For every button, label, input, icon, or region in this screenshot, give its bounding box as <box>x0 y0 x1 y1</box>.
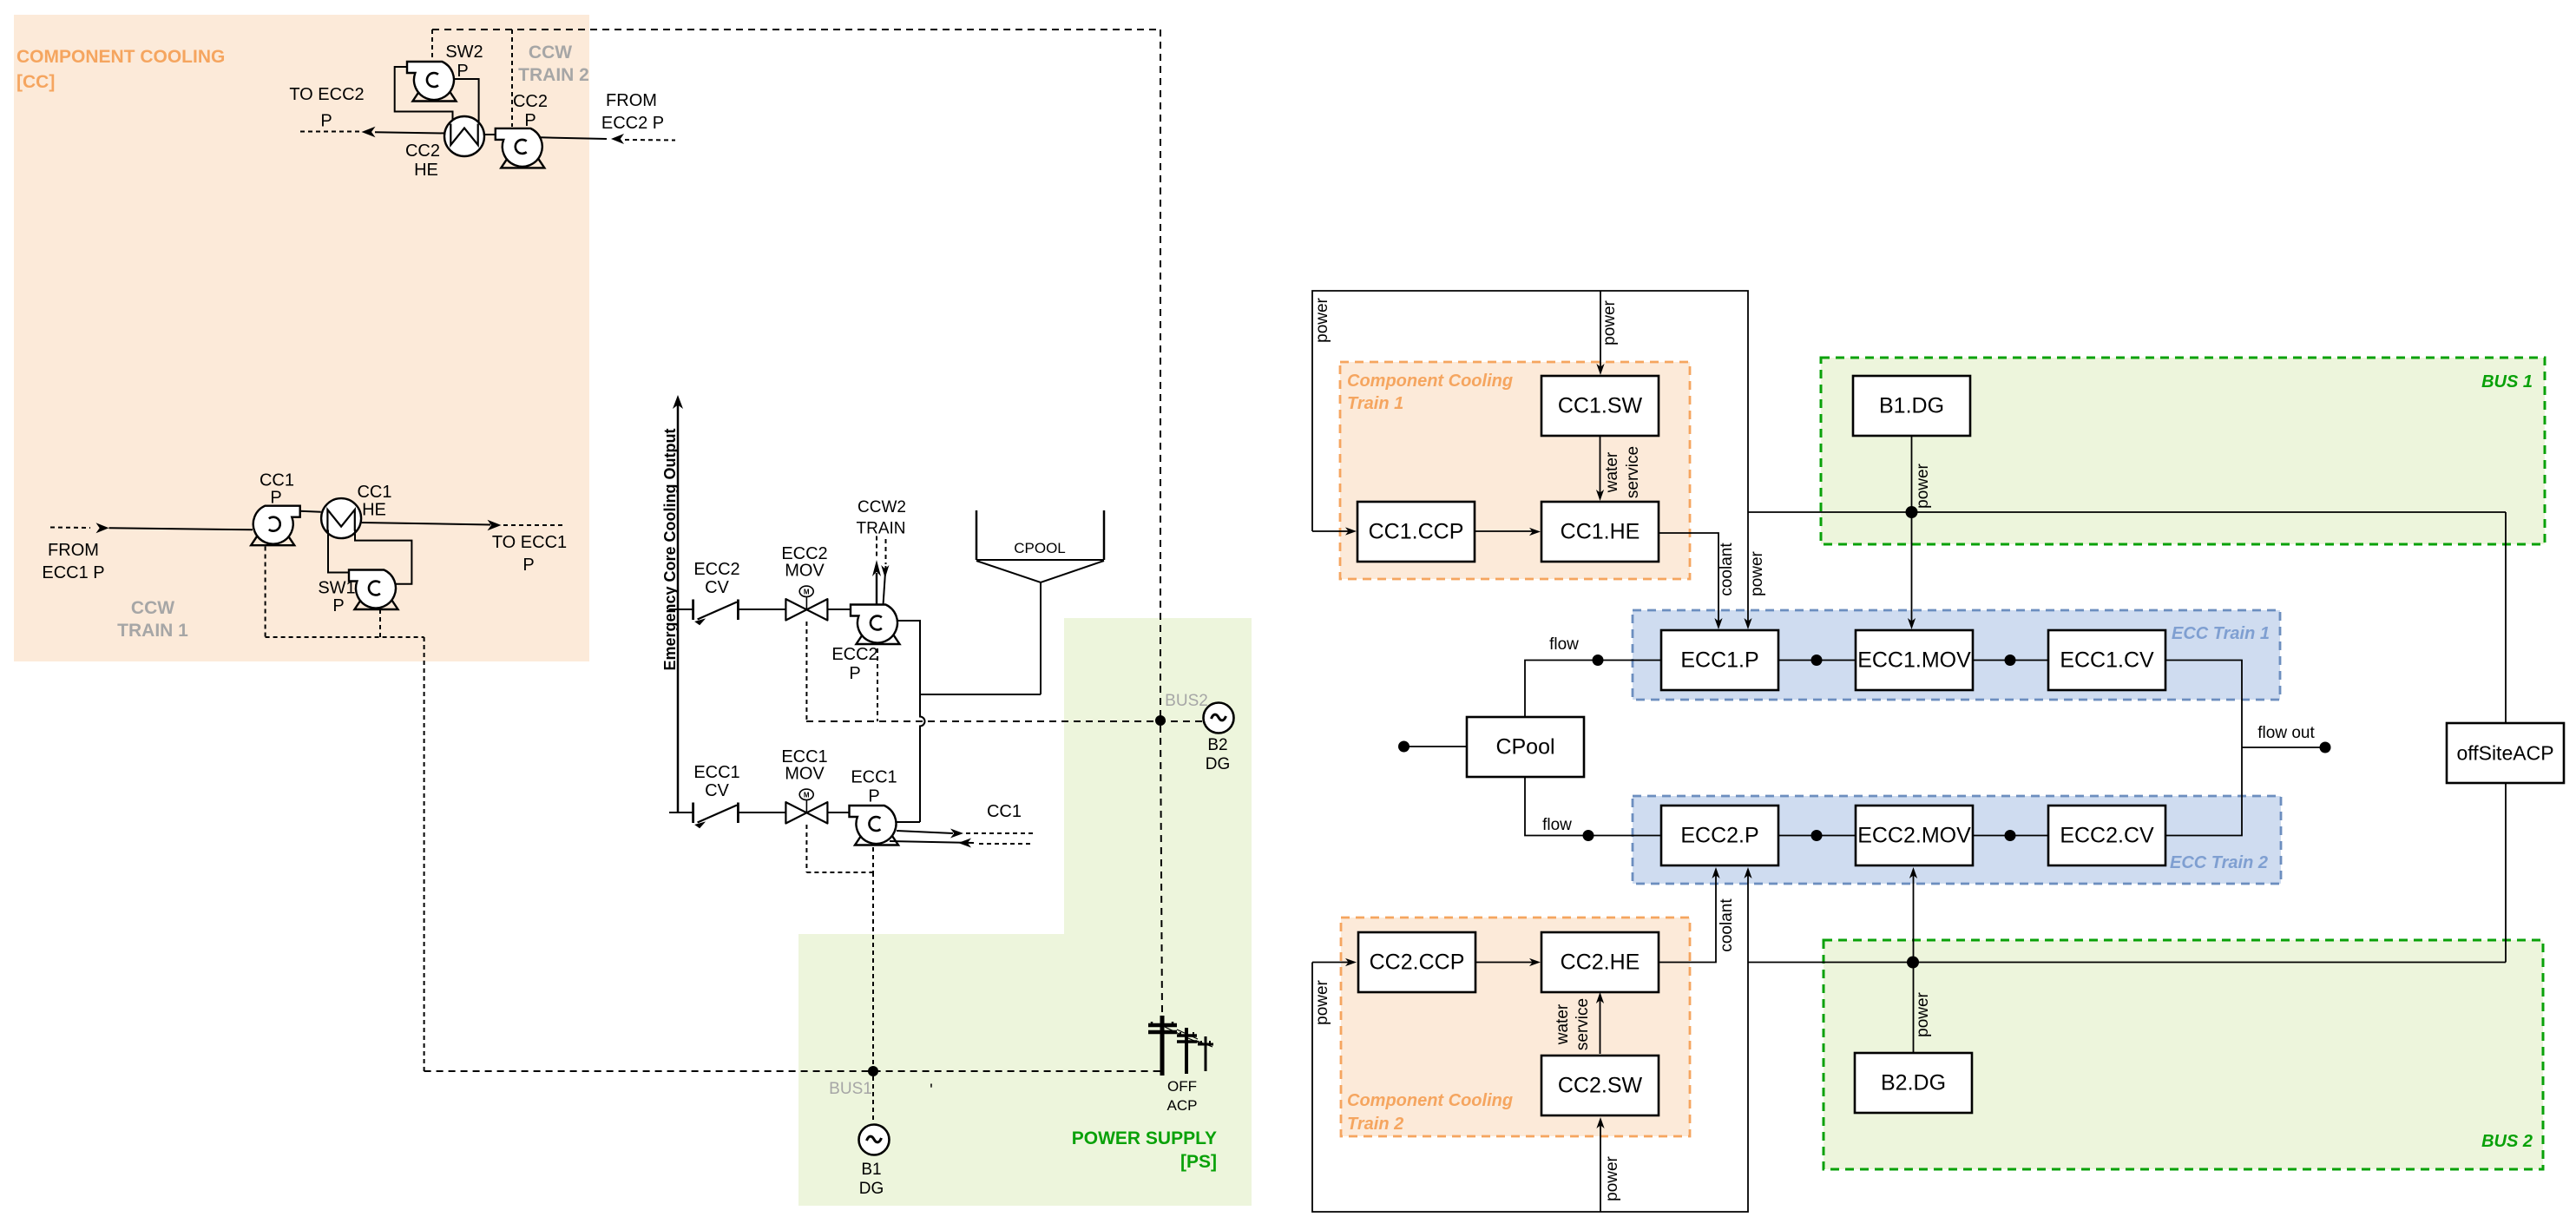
svg-text:MOV: MOV <box>785 765 825 784</box>
svg-text:Train 1: Train 1 <box>1347 394 1403 413</box>
svg-text:CPOOL: CPOOL <box>1014 540 1066 556</box>
svg-text:CC2: CC2 <box>513 92 548 111</box>
svg-text:FROM: FROM <box>606 91 657 110</box>
svg-text:TO ECC2: TO ECC2 <box>289 85 364 104</box>
svg-text:ECC Train 2: ECC Train 2 <box>2170 853 2268 872</box>
svg-text:ECC2.CV: ECC2.CV <box>2060 824 2154 848</box>
svg-text:OFF: OFF <box>1167 1078 1197 1095</box>
svg-text:CV: CV <box>705 578 729 597</box>
svg-text:flow: flow <box>1549 635 1579 654</box>
svg-text:MOV: MOV <box>785 562 825 581</box>
svg-text:CC2.CCP: CC2.CCP <box>1370 951 1465 975</box>
svg-text:CV: CV <box>705 781 729 800</box>
svg-text:power: power <box>1914 991 1932 1036</box>
svg-text:[CC]: [CC] <box>16 72 55 92</box>
svg-text:B1: B1 <box>861 1161 881 1179</box>
svg-text:power: power <box>1748 550 1766 595</box>
svg-text:CC1: CC1 <box>987 802 1022 821</box>
svg-text:ECC2.P: ECC2.P <box>1680 824 1758 848</box>
svg-text:flow out: flow out <box>2257 724 2315 742</box>
svg-text:': ' <box>930 1082 933 1100</box>
svg-text:power: power <box>1914 463 1932 508</box>
svg-text:BUS 1: BUS 1 <box>2481 372 2533 391</box>
svg-text:BUS 2: BUS 2 <box>2481 1132 2533 1151</box>
svg-text:[PS]: [PS] <box>1180 1152 1217 1172</box>
svg-text:water: water <box>1554 1003 1572 1045</box>
svg-text:CC2.HE: CC2.HE <box>1561 951 1640 975</box>
svg-text:COMPONENT COOLING: COMPONENT COOLING <box>16 47 225 67</box>
svg-text:ECC2: ECC2 <box>831 645 877 664</box>
svg-text:HE: HE <box>362 501 386 520</box>
svg-text:ECC1.MOV: ECC1.MOV <box>1857 648 1971 673</box>
svg-text:ECC1.P: ECC1.P <box>1680 648 1758 673</box>
svg-text:ECC1.CV: ECC1.CV <box>2060 648 2154 673</box>
svg-text:power: power <box>1313 297 1331 342</box>
svg-text:Component Cooling: Component Cooling <box>1347 372 1513 391</box>
svg-text:ECC1 P: ECC1 P <box>42 563 104 582</box>
svg-text:SW1: SW1 <box>318 579 355 598</box>
svg-text:ECC1: ECC1 <box>693 763 739 782</box>
svg-text:TRAIN 1: TRAIN 1 <box>117 621 188 641</box>
svg-text:water: water <box>1603 451 1621 493</box>
svg-text:B2.DG: B2.DG <box>1881 1071 1946 1095</box>
svg-text:CC1.CCP: CC1.CCP <box>1369 520 1464 544</box>
svg-text:ECC2.MOV: ECC2.MOV <box>1857 824 1971 848</box>
svg-text:BUS2: BUS2 <box>1165 692 1208 710</box>
svg-text:CC1.SW: CC1.SW <box>1558 394 1643 418</box>
svg-text:flow: flow <box>1542 816 1572 834</box>
svg-text:CC1: CC1 <box>357 483 391 502</box>
svg-text:ACP: ACP <box>1167 1097 1198 1114</box>
svg-text:B2: B2 <box>1207 736 1227 754</box>
svg-text:DG: DG <box>859 1180 884 1198</box>
svg-text:TRAIN 2: TRAIN 2 <box>518 65 589 85</box>
svg-text:CPool: CPool <box>1495 735 1554 760</box>
svg-text:Emergency Core Cooling Output: Emergency Core Cooling Output <box>661 428 679 670</box>
svg-text:Component Cooling: Component Cooling <box>1347 1091 1513 1110</box>
svg-text:P: P <box>457 62 468 81</box>
svg-text:FROM: FROM <box>48 541 99 560</box>
svg-text:offSiteACP: offSiteACP <box>2456 742 2553 765</box>
svg-text:coolant: coolant <box>1718 543 1736 596</box>
svg-text:P: P <box>849 664 860 683</box>
svg-text:TRAIN: TRAIN <box>857 520 906 538</box>
svg-text:power: power <box>1603 1155 1621 1201</box>
svg-text:CCW2: CCW2 <box>858 498 906 516</box>
svg-text:P: P <box>522 556 534 575</box>
svg-text:ECC2: ECC2 <box>693 560 739 579</box>
svg-text:CCW: CCW <box>529 43 572 62</box>
svg-text:CCW: CCW <box>131 598 174 618</box>
svg-text:B1.DG: B1.DG <box>1879 394 1944 418</box>
svg-text:SW2: SW2 <box>445 43 483 62</box>
svg-text:ECC2 P: ECC2 P <box>601 114 664 133</box>
svg-text:P: P <box>320 112 332 131</box>
svg-text:POWER SUPPLY: POWER SUPPLY <box>1072 1128 1217 1148</box>
svg-text:P: P <box>332 596 344 615</box>
svg-text:service: service <box>1624 446 1642 498</box>
svg-text:coolant: coolant <box>1718 898 1736 952</box>
svg-text:P: P <box>524 111 536 130</box>
svg-text:Train 2: Train 2 <box>1347 1115 1403 1134</box>
svg-text:power: power <box>1313 979 1331 1024</box>
svg-text:CC1: CC1 <box>260 471 294 490</box>
svg-text:ECC Train 1: ECC Train 1 <box>2172 624 2270 643</box>
svg-text:P: P <box>868 787 879 806</box>
svg-text:TO ECC1: TO ECC1 <box>492 533 567 552</box>
svg-text:service: service <box>1574 998 1592 1050</box>
svg-text:CC2: CC2 <box>405 141 440 161</box>
svg-text:HE: HE <box>414 161 438 180</box>
svg-text:BUS1: BUS1 <box>829 1080 872 1098</box>
svg-text:power: power <box>1600 299 1619 345</box>
svg-text:P: P <box>270 489 281 508</box>
svg-text:CC1.HE: CC1.HE <box>1561 520 1640 544</box>
svg-text:CC2.SW: CC2.SW <box>1558 1074 1643 1098</box>
svg-text:DG: DG <box>1206 755 1231 773</box>
svg-text:ECC1: ECC1 <box>851 768 897 787</box>
